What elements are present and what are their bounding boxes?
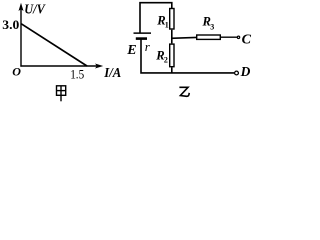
- svg-text:3: 3: [210, 22, 214, 31]
- U-I characteristic line: [21, 24, 87, 66]
- svg-text:O: O: [12, 65, 21, 79]
- wire: R1 to R2 with junction to R3 branch: [171, 30, 173, 44]
- wire: junction to R3: [171, 36, 197, 39]
- wire: R2 bottom lead: [171, 67, 173, 73]
- terminal C (open circle): [237, 36, 239, 38]
- resistor R2: [170, 44, 174, 67]
- svg-text:1: 1: [165, 20, 169, 29]
- svg-text:2: 2: [164, 56, 168, 65]
- svg-text:D: D: [240, 64, 251, 79]
- resistor R1: [170, 9, 174, 30]
- wire: R3 to terminal C: [221, 36, 238, 38]
- terminal D (open circle): [235, 71, 239, 75]
- y-axis (U axis) with arrowhead: [19, 3, 24, 67]
- svg-text:U/V: U/V: [24, 2, 46, 17]
- resistor R3: [197, 35, 221, 39]
- svg-text:1.5: 1.5: [70, 68, 84, 82]
- caption 乙 (yǐ) drawn as strokes: [179, 87, 189, 96]
- svg-text:E: E: [126, 43, 136, 58]
- svg-text:I/A: I/A: [103, 66, 121, 81]
- battery E long plate (+): [134, 32, 152, 34]
- wire: battery to bottom-left corner and bottom side to D: [141, 39, 234, 73]
- wire: top side of loop: [140, 3, 172, 33]
- x-axis (I axis) with arrowhead: [20, 64, 103, 69]
- svg-text:3.0: 3.0: [2, 18, 19, 32]
- caption 甲 (jiǎ) drawn as strokes: [57, 86, 66, 102]
- battery E short plate (-): [136, 37, 147, 40]
- svg-text:C: C: [242, 32, 252, 47]
